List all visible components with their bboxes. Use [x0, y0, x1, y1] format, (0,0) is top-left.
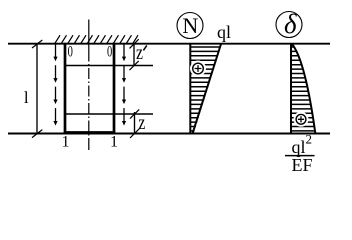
svg-text:z: z — [138, 111, 145, 133]
svg-text:z: z — [136, 41, 143, 63]
svg-text:EF: EF — [292, 155, 313, 175]
svg-text:ql: ql — [217, 22, 231, 42]
svg-text:2: 2 — [306, 132, 313, 147]
svg-text:N: N — [182, 13, 198, 38]
svg-text:0: 0 — [107, 42, 113, 60]
svg-text:0: 0 — [68, 42, 74, 60]
svg-text:ql: ql — [292, 137, 306, 157]
svg-text:l: l — [24, 88, 29, 107]
svg-text:1: 1 — [110, 133, 118, 150]
svg-text:1: 1 — [62, 133, 70, 150]
svg-text:δ: δ — [284, 9, 297, 39]
